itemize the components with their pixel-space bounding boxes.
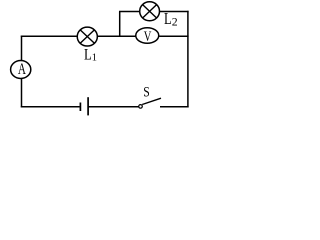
svg-text:L: L [84,46,92,64]
svg-text:L: L [164,10,172,28]
svg-text:A: A [18,60,26,77]
voltmeter V [136,28,159,45]
wire voltmeter to right wire [159,35,188,37]
wire top-left horizontal [21,35,78,37]
svg-text:V: V [144,28,152,44]
label L1 [84,46,97,64]
wire left vertical lower [21,79,23,107]
lamp L1 [77,27,97,46]
label S [143,83,150,99]
wire left vertical upper [21,36,23,61]
wire switch to bottom-right [160,106,189,108]
wire bottom-left to battery [21,106,80,108]
switch S pivot [139,105,143,109]
switch S blade [142,98,161,104]
battery negative short plate [79,103,81,112]
ammeter A [11,60,31,78]
wire L2 to top-right corner [160,11,189,13]
svg-text:1: 1 [92,53,97,64]
battery positive long plate [87,97,89,115]
wire L1 to voltmeter [98,35,136,37]
wire battery to switch [88,106,139,108]
svg-text:2: 2 [172,15,178,29]
label L2 [164,10,178,28]
lamp L2 [140,2,160,21]
wire junction to L2 [119,11,140,13]
wire right vertical [187,11,189,108]
node junction vertical wire [119,12,121,37]
svg-text:S: S [143,83,150,99]
